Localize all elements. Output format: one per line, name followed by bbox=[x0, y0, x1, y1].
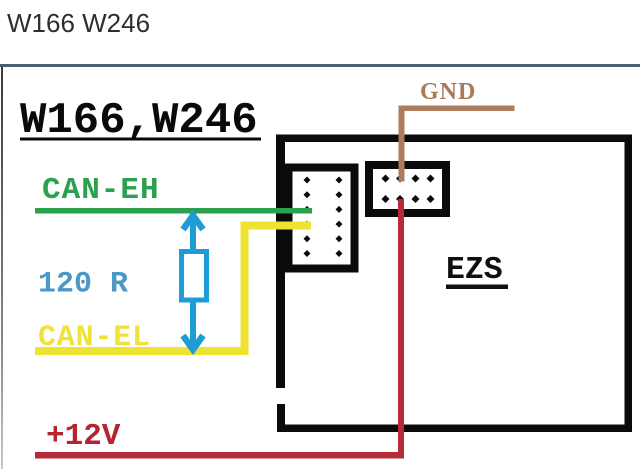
label 120 R bbox=[38, 268, 128, 302]
page title W166 W246 bbox=[7, 8, 150, 38]
connector J2 (top, 4 cols x 2 rows) bbox=[369, 165, 446, 213]
ECU box EZS (outline) bbox=[276, 135, 632, 433]
svg-text:+12V: +12V bbox=[46, 419, 121, 454]
connector J2 pins bbox=[382, 175, 435, 204]
label GND bbox=[420, 79, 476, 105]
wire GND (brown) bbox=[399, 106, 515, 182]
label CAN-EH bbox=[42, 173, 160, 208]
svg-text:EZS: EZS bbox=[446, 253, 503, 288]
wire CAN-EH (green) bbox=[35, 208, 312, 214]
wire +12V (red) bbox=[35, 199, 404, 459]
wire CAN-EL (yellow) bbox=[35, 226, 311, 352]
label +12V bbox=[46, 419, 121, 454]
svg-text:GND: GND bbox=[420, 79, 476, 105]
image left edge bbox=[1, 67, 3, 469]
label EZS bbox=[446, 253, 508, 289]
connector J1 (left, 2 cols x 6 rows) bbox=[289, 168, 355, 269]
resistor 120R (blue, with arrows) bbox=[182, 213, 207, 350]
diagram title label W166,W246 bbox=[20, 96, 261, 146]
svg-text:W166 W246: W166 W246 bbox=[7, 8, 150, 38]
svg-text:120 R: 120 R bbox=[38, 268, 128, 302]
svg-text:CAN-EH: CAN-EH bbox=[42, 173, 160, 208]
label CAN-EL bbox=[38, 321, 151, 355]
svg-text:CAN-EL: CAN-EL bbox=[38, 321, 151, 355]
header rule bbox=[0, 64, 640, 67]
connector J1 pins bbox=[304, 177, 343, 258]
